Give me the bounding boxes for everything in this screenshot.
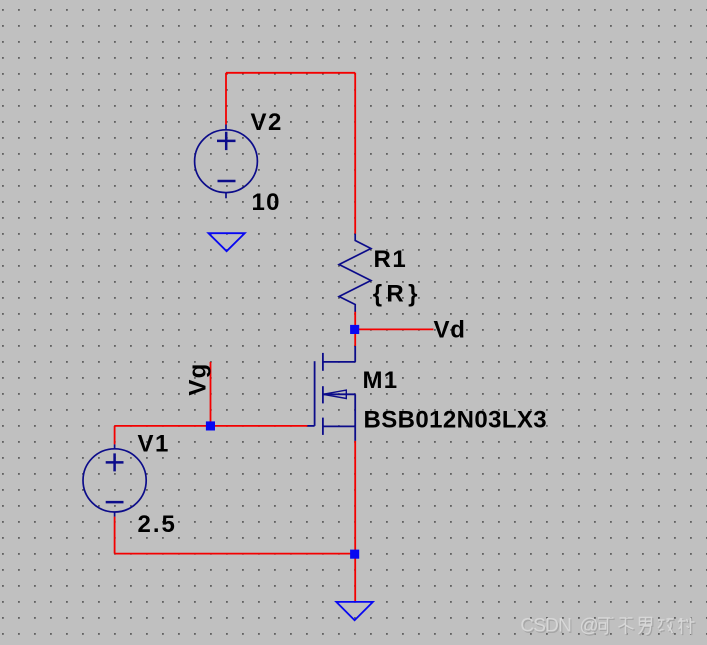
svg-text:R1: R1 — [374, 246, 408, 273]
svg-text:{R}: {R} — [373, 281, 422, 308]
svg-text:Vd: Vd — [434, 317, 466, 344]
svg-text:@: @ — [579, 616, 598, 637]
svg-text:V2: V2 — [251, 109, 283, 136]
wire vertical from top net down to R1 — [354, 73, 356, 234]
ground (bottom) — [336, 602, 373, 620]
wire top horizontal net V2-R1 — [226, 72, 355, 74]
junction node bottom net — [350, 550, 359, 559]
svg-text:2.5: 2.5 — [138, 511, 177, 538]
watermark CSDN — [520, 616, 599, 638]
svg-text:V1: V1 — [138, 430, 170, 457]
svg-text:BSB012N03LX3: BSB012N03LX3 — [364, 407, 548, 434]
ground (below V2) — [208, 233, 244, 251]
junction node Vg — [206, 421, 215, 430]
wire R1 bottom to MOSFET drain (node Vd) — [354, 312, 356, 347]
wire Vd label stub — [355, 328, 433, 330]
wire V1 plus terminal vertical — [114, 426, 116, 445]
wire bottom horizontal net — [115, 553, 356, 555]
transistor M1 (NMOS) — [307, 346, 355, 441]
wire gate net V1 to M1 gate — [115, 425, 308, 427]
svg-text:M1: M1 — [363, 367, 399, 394]
wire M1 source down to bottom net — [354, 441, 356, 554]
svg-text:Vg: Vg — [185, 363, 212, 396]
resistor R1 — [339, 234, 371, 312]
watermark CJK glyphs — [598, 618, 696, 636]
wire bottom net to ground — [354, 554, 356, 602]
voltage source V1 — [83, 444, 146, 516]
wire vertical into V2 plus terminal — [225, 73, 227, 125]
wire Vg label stub — [210, 362, 212, 426]
junction node Vd — [350, 325, 359, 334]
svg-text:10: 10 — [252, 189, 281, 216]
svg-text:CSDN: CSDN — [520, 616, 571, 637]
voltage source V2 — [195, 125, 258, 199]
wire V1 minus to bottom net — [114, 517, 116, 554]
